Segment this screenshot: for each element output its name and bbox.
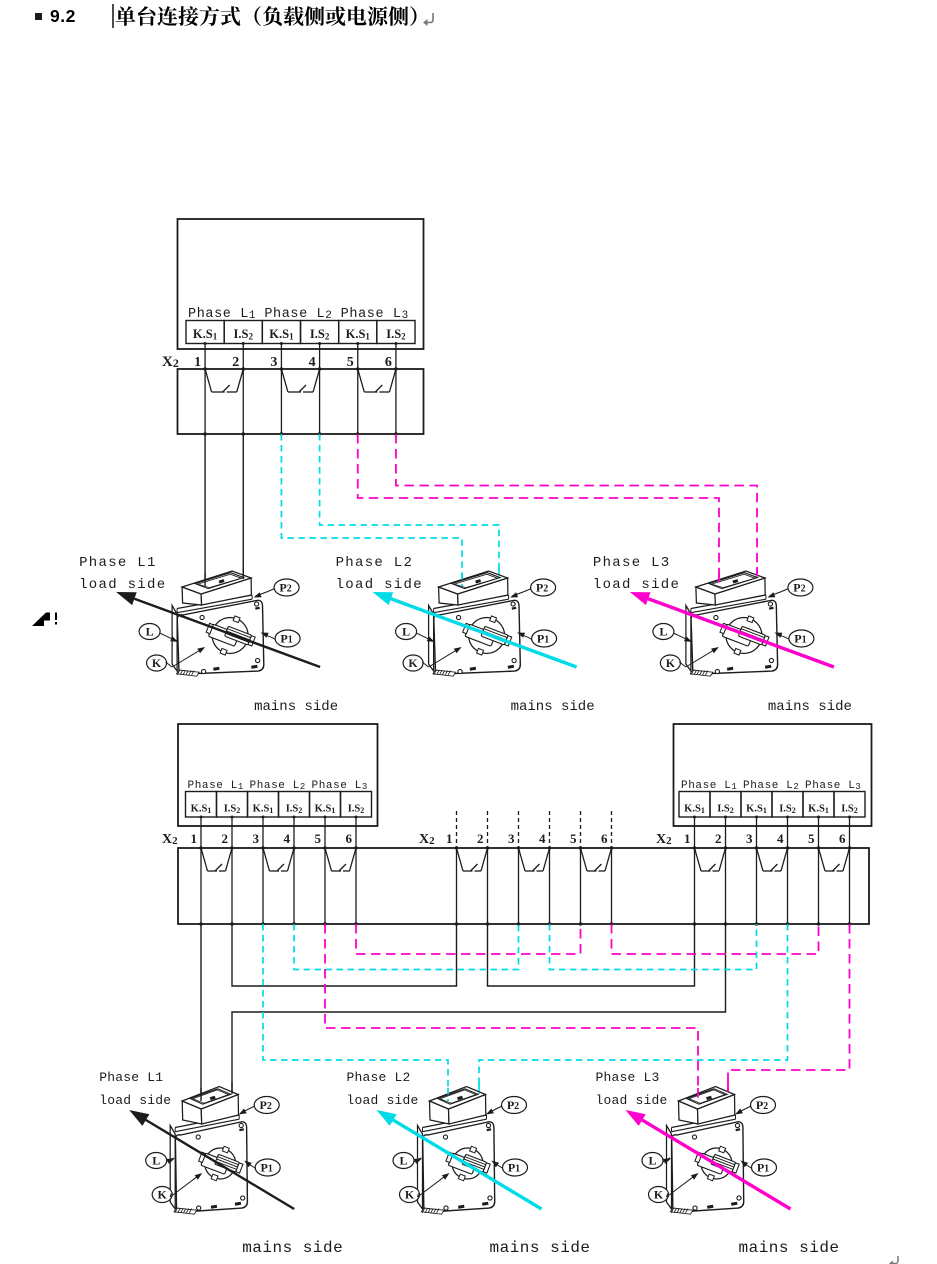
X2 terminal numbers M2-right xyxy=(656,831,846,847)
svg-text:5: 5 xyxy=(347,355,354,370)
image anchor mark xyxy=(32,613,57,627)
CT5 primary conductor arrow to load side xyxy=(377,1110,542,1209)
svg-text:I.S2: I.S2 xyxy=(224,804,241,816)
CT1 primary conductor arrow to load side xyxy=(116,592,320,667)
current transformer CT1 (upper, Phase L1) xyxy=(172,571,264,676)
svg-text:load side: load side xyxy=(347,1093,419,1108)
svg-text:L: L xyxy=(648,1154,656,1168)
wire right X2-4 back to CT5 L (cyan dashed) xyxy=(479,924,788,1094)
svg-text:P2: P2 xyxy=(279,581,291,595)
svg-text:I.S2: I.S2 xyxy=(717,804,734,816)
svg-text:P2: P2 xyxy=(536,581,548,595)
current transformer CT2 (upper, Phase L2) xyxy=(429,571,521,676)
svg-text:3: 3 xyxy=(270,355,277,370)
shorting link mid 3-4 (lower) xyxy=(519,848,550,871)
svg-text:X2: X2 xyxy=(419,832,435,847)
svg-text:2: 2 xyxy=(715,831,722,846)
svg-text:Phase L3: Phase L3 xyxy=(341,307,409,322)
svg-text:Phase L2: Phase L2 xyxy=(250,780,306,792)
svg-text:mains side: mains side xyxy=(739,1239,840,1257)
svg-text:P2: P2 xyxy=(793,581,805,595)
svg-text:K: K xyxy=(158,1188,168,1202)
svg-text:L: L xyxy=(659,625,667,639)
svg-text:K.S1: K.S1 xyxy=(253,804,274,816)
svg-text:4: 4 xyxy=(539,831,546,846)
shorting link mid 1-2 (lower) xyxy=(457,848,488,871)
svg-text:K: K xyxy=(405,1188,415,1202)
wire middle X2-4 to right X2-3 (cyan dashed) xyxy=(550,924,757,970)
svg-text:4: 4 xyxy=(309,355,316,370)
phase labels M2-left xyxy=(188,780,368,792)
svg-text:6: 6 xyxy=(601,831,608,846)
svg-text:5: 5 xyxy=(808,831,815,846)
svg-text:2: 2 xyxy=(232,355,239,370)
wire left X2-6 to middle X2-5 (magenta dashed) xyxy=(356,924,581,954)
paragraph return mark after title xyxy=(423,13,433,26)
svg-text:load side: load side xyxy=(336,577,423,593)
svg-text:2: 2 xyxy=(477,831,484,846)
svg-text:K: K xyxy=(152,656,162,670)
wires: meter M1 cells to terminal block X2 xyxy=(204,342,398,369)
wire X2-4 to CT2 L (cyan dashed) xyxy=(320,434,499,578)
svg-text:6: 6 xyxy=(385,355,392,370)
shorting link left 3-4 (lower) xyxy=(263,848,294,871)
svg-text:P1: P1 xyxy=(537,632,549,646)
wire middle X2-2 to right X2-1 (black) xyxy=(488,924,695,986)
wire X2-6 to CT3 L (magenta dashed) xyxy=(396,434,757,578)
shorting link left 1-2 (lower) xyxy=(201,848,232,871)
meter box M1 outline xyxy=(178,219,424,349)
wire left X2-1 down to CT4 K (black) xyxy=(200,924,202,1105)
svg-text:3: 3 xyxy=(508,831,515,846)
terminal block X2 (upper) xyxy=(178,369,424,434)
svg-text:6: 6 xyxy=(346,831,353,846)
svg-text:X2: X2 xyxy=(162,832,178,847)
wire right X2-6 back to CT6 L (magenta dashed) xyxy=(728,924,850,1094)
text cursor bar xyxy=(112,4,114,28)
current transformer CT5 (lower, Phase L2) xyxy=(418,1087,495,1215)
wire left X2-5 down to CT6 K (magenta dashed) xyxy=(325,924,698,1105)
svg-text:I.S2: I.S2 xyxy=(386,327,406,342)
wire middle X2-6 to right X2-5 (magenta dashed) xyxy=(612,924,819,954)
svg-text:1: 1 xyxy=(191,831,198,846)
svg-text:P1: P1 xyxy=(508,1161,520,1175)
meter box M2-right outline xyxy=(674,724,872,826)
wire X2-1 to CT1 K (black) xyxy=(204,434,206,590)
wire X2-5 to CT3 K (magenta dashed) xyxy=(358,434,719,590)
svg-text:P2: P2 xyxy=(260,1098,272,1112)
svg-text:P2: P2 xyxy=(756,1098,768,1112)
bottom-right return mark (cropped) xyxy=(889,1256,898,1264)
svg-text:P1: P1 xyxy=(757,1161,769,1175)
shorting link right 1-2 (lower) xyxy=(695,848,726,871)
wire right X2-2 back to CT4 L (black) xyxy=(232,924,726,1094)
svg-text:X2: X2 xyxy=(656,832,672,847)
current transformer CT3 (upper, Phase L3) xyxy=(686,571,778,676)
svg-text:load side: load side xyxy=(596,1093,668,1108)
heading title CJK: 单台连接方式（负载侧或电源侧） xyxy=(116,6,417,26)
svg-text:Phase L3: Phase L3 xyxy=(805,780,861,792)
CT1 phase/load/mains text xyxy=(79,555,338,715)
wire left X2-3 down to CT5 K (cyan dashed) xyxy=(263,924,448,1105)
svg-text:K: K xyxy=(654,1188,664,1202)
svg-text:Phase L1: Phase L1 xyxy=(188,307,256,322)
heading bullet square xyxy=(35,13,42,20)
svg-text:1: 1 xyxy=(684,831,691,846)
svg-text:X2: X2 xyxy=(162,354,179,370)
svg-text:2: 2 xyxy=(222,831,229,846)
svg-text:mains side: mains side xyxy=(254,699,338,715)
svg-text:I.S2: I.S2 xyxy=(310,327,330,342)
current transformer CT6 (lower, Phase L3) xyxy=(667,1087,744,1215)
CT4 primary conductor arrow to load side xyxy=(129,1110,294,1209)
svg-text:3: 3 xyxy=(746,831,753,846)
shorting link 1-2 (upper) xyxy=(205,369,243,392)
svg-text:4: 4 xyxy=(777,831,784,846)
svg-text:P1: P1 xyxy=(261,1161,273,1175)
shorting link right 5-6 (lower) xyxy=(819,848,850,871)
shorting link right 3-4 (lower) xyxy=(757,848,788,871)
svg-text:5: 5 xyxy=(315,831,322,846)
svg-text:load side: load side xyxy=(593,577,680,593)
terminal strip M1: K.S1/I.S2 cells xyxy=(186,321,415,344)
meter box M2-left outline xyxy=(178,724,378,826)
svg-text:Phase L3: Phase L3 xyxy=(593,555,671,571)
X2 terminal numbers M2-left xyxy=(162,831,353,847)
CT6 terminal labels L K P1 P2 xyxy=(642,1097,777,1203)
svg-text:mains side: mains side xyxy=(768,699,852,715)
svg-text:Phase L1: Phase L1 xyxy=(681,780,737,792)
svg-text:L: L xyxy=(402,625,410,639)
current transformer CT4 (lower, Phase L1) xyxy=(170,1087,247,1215)
svg-text:K.S1: K.S1 xyxy=(269,327,294,342)
CT3 primary conductor arrow to load side xyxy=(630,592,834,667)
terminal block X2 upper: through wires and junctions xyxy=(203,367,397,435)
svg-text:1: 1 xyxy=(446,831,453,846)
svg-text:Phase L3: Phase L3 xyxy=(312,780,368,792)
svg-text:Phase L2: Phase L2 xyxy=(264,307,332,322)
svg-text:K.S1: K.S1 xyxy=(191,804,212,816)
wire tails into CT caps (lower) xyxy=(201,1082,728,1101)
CT5 terminal labels L K P1 P2 xyxy=(393,1097,528,1203)
CT3 terminal labels L K P1 P2 xyxy=(653,579,814,671)
svg-text:L: L xyxy=(399,1154,407,1168)
X2 terminal numbers M1 xyxy=(162,354,392,370)
svg-text:I.S2: I.S2 xyxy=(841,804,858,816)
wires: left meter cells to block xyxy=(200,816,358,849)
svg-text:9.2: 9.2 xyxy=(50,6,76,26)
svg-text:Phase L3: Phase L3 xyxy=(596,1070,660,1085)
heading number 9.2 xyxy=(50,6,76,26)
svg-text:P1: P1 xyxy=(794,632,806,646)
svg-text:L: L xyxy=(146,625,154,639)
wire tails into CT caps (upper) xyxy=(205,567,757,586)
shorting link left 5-6 (lower) xyxy=(325,848,356,871)
CT6 primary conductor arrow to load side xyxy=(626,1110,791,1209)
svg-text:P2: P2 xyxy=(507,1098,519,1112)
svg-text:Phase L2: Phase L2 xyxy=(347,1070,411,1085)
wire X2-2 to CT1 L (black) xyxy=(242,434,244,578)
svg-text:K.S1: K.S1 xyxy=(746,804,767,816)
svg-text:load side: load side xyxy=(99,1093,171,1108)
middle meter dashed stub wires xyxy=(457,811,612,848)
svg-text:I.S2: I.S2 xyxy=(234,327,254,342)
wire X2-3 to CT2 K (cyan dashed) xyxy=(281,434,462,590)
CT2 phase/load/mains text xyxy=(336,555,595,715)
svg-text:6: 6 xyxy=(839,831,846,846)
CT1 terminal labels L K P1 P2 xyxy=(139,579,300,671)
svg-text:Phase L1: Phase L1 xyxy=(79,555,157,571)
svg-text:Phase L2: Phase L2 xyxy=(743,780,799,792)
svg-text:mains side: mains side xyxy=(511,699,595,715)
svg-text:mains side: mains side xyxy=(242,1239,343,1257)
svg-text:4: 4 xyxy=(284,831,291,846)
CT5 phase/load/mains text xyxy=(347,1070,591,1257)
shorting link 3-4 (upper) xyxy=(281,369,319,392)
svg-text:I.S2: I.S2 xyxy=(779,804,796,816)
svg-text:K.S1: K.S1 xyxy=(315,804,336,816)
shorting link mid 5-6 (lower) xyxy=(581,848,612,871)
svg-text:load side: load side xyxy=(79,577,166,593)
terminal strip M2-right: K.S1/I.S2 cells xyxy=(679,792,865,818)
svg-text:P1: P1 xyxy=(280,632,292,646)
svg-text:I.S2: I.S2 xyxy=(348,804,365,816)
svg-text:Phase L1: Phase L1 xyxy=(99,1070,163,1085)
svg-text:1: 1 xyxy=(194,355,201,370)
middle meter X2 label and terminal numbers xyxy=(419,831,608,847)
svg-text:L: L xyxy=(152,1154,160,1168)
svg-text:Phase L2: Phase L2 xyxy=(336,555,414,571)
svg-text:5: 5 xyxy=(570,831,577,846)
phase labels M2-right xyxy=(681,780,861,792)
svg-text:Phase L1: Phase L1 xyxy=(188,780,244,792)
svg-text:mains side: mains side xyxy=(490,1239,591,1257)
wires: right meter cells to block xyxy=(693,816,851,849)
svg-text:K.S1: K.S1 xyxy=(684,804,705,816)
svg-text:K.S1: K.S1 xyxy=(808,804,829,816)
wire left X2-4 to middle X2-3 (cyan dashed) xyxy=(294,924,519,970)
long block through wires and junctions xyxy=(199,846,851,925)
phase labels M1 xyxy=(188,307,409,322)
CT3 phase/load/mains text xyxy=(593,555,852,715)
CT4 phase/load/mains text xyxy=(99,1070,343,1257)
svg-text:K: K xyxy=(408,656,418,670)
wire left X2-2 to middle X2-1 (black) xyxy=(232,924,457,986)
CT4 terminal labels L K P1 P2 xyxy=(146,1097,281,1203)
svg-text:K.S1: K.S1 xyxy=(193,327,218,342)
terminal strip M2-left: K.S1/I.S2 cells xyxy=(186,792,372,818)
CT6 phase/load/mains text xyxy=(596,1070,840,1257)
long terminal block (lower) xyxy=(178,848,869,924)
svg-text:K.S1: K.S1 xyxy=(346,327,371,342)
CT2 primary conductor arrow to load side xyxy=(373,592,577,667)
svg-text:3: 3 xyxy=(253,831,260,846)
shorting link 5-6 (upper) xyxy=(358,369,396,392)
CT2 terminal labels L K P1 P2 xyxy=(396,579,557,671)
svg-text:K: K xyxy=(666,656,676,670)
svg-text:I.S2: I.S2 xyxy=(286,804,303,816)
